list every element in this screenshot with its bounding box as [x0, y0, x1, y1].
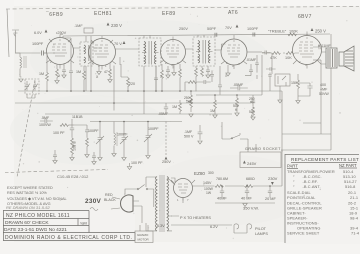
antenna series cap — [42, 51, 44, 56]
svg-text:¾M: ¾M — [80, 221, 87, 226]
cathode resistor 150 — [297, 74, 299, 101]
svg-text:11B1B: 11B1B — [72, 115, 83, 119]
svg-text:RES WATTAGE ½ 10%: RES WATTAGE ½ 10% — [7, 191, 47, 195]
AVC branch cap — [255, 55, 259, 79]
det cap .01MF — [245, 64, 253, 76]
svg-text:100PF: 100PF — [247, 27, 259, 31]
grid to treble connector — [271, 53, 273, 74]
det horizontal resistor — [188, 81, 196, 84]
V1 bias cluster — [19, 36, 86, 98]
rail cap 100PF — [253, 33, 255, 37]
svg-text:230 V: 230 V — [111, 23, 122, 28]
resistor 500K b — [252, 107, 254, 108]
IFT2 sec to V4 diode — [222, 44, 226, 50]
svg-text:150: 150 — [291, 81, 297, 85]
ferrite rod coil L1 — [20, 57, 22, 68]
treble pot box — [275, 74, 290, 86]
screen dropper — [119, 62, 121, 65]
svg-text:¯6FB9: ¯6FB9 — [45, 11, 63, 18]
label 250V right — [311, 28, 314, 31]
resistor 780ohm — [215, 185, 223, 188]
IFT1 bottom leads — [144, 66, 158, 91]
trimmer cap 2 — [33, 81, 38, 91]
V2 plate to IFT1 — [116, 48, 162, 49]
main bus y103 — [15, 102, 250, 104]
osc trimmer 2 — [117, 122, 128, 161]
svg-text:.05MF: .05MF — [158, 112, 169, 116]
AF line to grid chain — [253, 53, 262, 95]
resistor 500K a — [236, 95, 238, 113]
mains to transformer wires — [125, 189, 142, 223]
ground sym — [243, 204, 247, 207]
ground — [19, 79, 23, 82]
svg-text:21-1: 21-1 — [350, 195, 358, 200]
cathode ground — [55, 81, 59, 84]
IFT1 supply drop — [143, 91, 145, 114]
svg-text:EZ80: EZ80 — [194, 171, 205, 176]
svg-text:6.0V: 6.0V — [34, 31, 42, 35]
AC squiggle — [90, 208, 98, 211]
svg-text:516-8: 516-8 — [345, 184, 355, 189]
filter cap C20 — [268, 186, 272, 198]
cathode bypass cap — [62, 66, 66, 75]
svg-text:DATE 23-1-51 DWG No 4221: DATE 23-1-51 DWG No 4221 — [4, 227, 67, 233]
plate coupling wires — [44, 35, 326, 204]
svg-text:AT6: AT6 — [228, 10, 238, 16]
IFT feeds from rail — [91, 35, 204, 38]
svg-text:40MF: 40MF — [217, 197, 227, 201]
svg-text:PILOT: PILOT — [255, 227, 267, 231]
heater pilot wires — [227, 225, 247, 233]
tuning gang section box — [25, 79, 39, 94]
svg-text:6BV7: 6BV7 — [298, 14, 312, 20]
svg-text:VOLTAGES ◆ VT.V.M. NO SIGNAL: VOLTAGES ◆ VT.V.M. NO SIGNAL — [7, 197, 67, 201]
resistor 680ohm — [245, 185, 253, 188]
det cap b — [204, 80, 211, 84]
svg-text:POINTER-DIAL: POINTER-DIAL — [287, 195, 316, 200]
osc trimmer 1 — [88, 122, 104, 161]
tube pin numbers — [50, 60, 314, 202]
grid resistor 1M — [46, 53, 48, 91]
IFT2 secondary resistor b — [201, 66, 203, 68]
svg-text:″ -B.C.ANT.: ″ -B.C.ANT. — [293, 184, 321, 189]
page left border — [7, 9, 9, 57]
gramo socket box — [240, 147, 281, 168]
V5 grid wire from 10K — [294, 52, 299, 54]
svg-text:100 PF: 100 PF — [53, 131, 65, 135]
pilot lamp 1 — [234, 224, 239, 233]
drop cap with ground b — [92, 152, 96, 162]
tube V1 EF89 envelope — [46, 35, 74, 69]
svg-text:EXCEPT WHERE STATED: EXCEPT WHERE STATED — [7, 186, 53, 190]
svg-text:220: 220 — [129, 82, 135, 86]
svg-text:50PF: 50PF — [207, 27, 217, 31]
V4 detector cluster — [158, 58, 257, 120]
parts list table — [285, 152, 360, 244]
svg-text:1M: 1M — [210, 109, 215, 113]
IFT1 to V3 grid — [160, 51, 163, 53]
screen feed wire — [63, 36, 71, 63]
label 250V — [165, 157, 168, 160]
svg-text:100PF: 100PF — [88, 129, 99, 133]
resistor 47K — [272, 52, 280, 55]
100K resistor — [288, 33, 296, 36]
svg-text:BLACK: BLACK — [104, 198, 116, 202]
tube V3 EF89 envelope — [160, 37, 186, 69]
svg-text:RE DRAWN ON 31-5-52: RE DRAWN ON 31-5-52 — [6, 205, 50, 210]
grid resistor down — [270, 52, 272, 54]
tube V3 cathode gnd — [173, 65, 175, 73]
svg-text:P X TO HEATERS: P X TO HEATERS — [180, 216, 211, 220]
svg-text:EF89: EF89 — [162, 11, 176, 17]
page edge diagonal (fold) — [17, 80, 35, 177]
V4 plate AF out — [247, 51, 262, 53]
cathode ground — [98, 66, 100, 72]
mains switch — [139, 185, 154, 208]
junction dots — [46, 90, 271, 187]
osc coil — [112, 122, 117, 157]
resistor 1181B — [60, 124, 68, 127]
svg-text:DRAWN 60′ CHECK: DRAWN 60′ CHECK — [5, 220, 49, 226]
svg-text:.1MF: .1MF — [74, 24, 83, 28]
label 230V — [107, 23, 110, 26]
svg-text:100PF: 100PF — [32, 42, 44, 46]
second padder chain — [74, 125, 89, 138]
rail cap 50PF — [215, 33, 217, 37]
cap 250PF — [251, 95, 255, 107]
screen feed — [90, 36, 92, 92]
resistor 1M right — [179, 100, 181, 114]
notes block — [6, 174, 89, 210]
padder cap .5MF — [40, 119, 53, 123]
svg-text:300: 300 — [208, 171, 214, 175]
IF transformer T1 — [139, 36, 161, 91]
svg-text:REPLACEMENT PARTS LIST: REPLACEMENT PARTS LIST — [291, 157, 359, 162]
svg-text:RED: RED — [105, 193, 113, 197]
svg-text:0.01MF: 0.01MF — [318, 44, 332, 48]
svg-text:780.6M: 780.6M — [216, 177, 228, 181]
screen resistor — [161, 64, 163, 91]
svg-text:PART: PART — [287, 164, 298, 169]
svg-text:NZ PART: NZ PART — [339, 163, 357, 168]
B+ bus from rectifier — [193, 150, 283, 186]
svg-text:+MF: +MF — [320, 88, 328, 92]
oscillator section — [39, 115, 171, 165]
osc anode resistor 220 — [121, 64, 128, 91]
svg-text:C10-45 E28 /.012: C10-45 E28 /.012 — [57, 174, 89, 179]
svg-text:250V: 250V — [162, 160, 171, 164]
osc trimmer 3 — [144, 122, 159, 159]
audio output section — [262, 33, 354, 104]
EZ80 cathode stub — [182, 198, 184, 204]
svg-text:LAMPS: LAMPS — [255, 232, 268, 236]
main bus y91 — [18, 90, 282, 92]
AVC resistor 1M — [214, 95, 216, 114]
tone feed vertical — [269, 78, 271, 91]
svg-text:40 MF: 40 MF — [241, 197, 252, 201]
tone cap pair — [266, 67, 276, 78]
svg-text:250V: 250V — [179, 27, 188, 31]
svg-text:70V: 70V — [225, 26, 232, 30]
mains plug — [120, 195, 133, 212]
AF grid line — [262, 52, 299, 54]
cathode R — [166, 66, 170, 75]
radio/gramo switch — [222, 122, 248, 139]
trimmer cap 1 — [25, 81, 30, 91]
AGC resistor 1M — [83, 66, 85, 91]
screen feed — [307, 36, 321, 61]
padder resistor — [86, 138, 89, 146]
X marks — [160, 74, 228, 79]
IFT2 secondary resistor a — [195, 66, 197, 68]
svg-text:MOTOR: MOTOR — [138, 238, 150, 242]
IF transformer T2 — [193, 35, 215, 66]
gramo input cap .1MF 500V — [184, 122, 248, 144]
plate load — [179, 64, 181, 91]
HT winding to plates — [171, 178, 175, 185]
det branch — [210, 70, 214, 82]
resistor to gnd — [71, 138, 74, 146]
filter cap C40a — [220, 186, 224, 198]
svg-text:GRAMO SOCKET: GRAMO SOCKET — [245, 147, 281, 151]
V3 cluster — [144, 64, 181, 91]
svg-text:71-4: 71-4 — [351, 231, 360, 236]
title block — [3, 210, 135, 241]
speaker — [339, 46, 354, 71]
antenna coil box — [80, 36, 93, 91]
svg-text:SERVICE SHEET: SERVICE SHEET — [287, 231, 320, 236]
main bus y114 — [45, 113, 232, 115]
svg-text:1M: 1M — [172, 105, 177, 109]
volume pot 1M — [190, 91, 192, 112]
tube V5 6BV7 envelope — [293, 32, 322, 69]
svg-text:.1MF: .1MF — [184, 130, 193, 134]
svg-text:.05MF: .05MF — [233, 83, 244, 87]
AF line — [191, 91, 253, 95]
antenna — [12, 30, 55, 77]
svg-text:.01MF: .01MF — [246, 58, 257, 62]
V3 plate to IFT2 — [186, 49, 222, 50]
section separator dashed — [5, 170, 108, 173]
plate coupling .01MF — [313, 45, 326, 49]
gramo motor box — [135, 231, 153, 243]
svg-text:100 PF: 100 PF — [131, 161, 143, 165]
svg-text:10K: 10K — [285, 56, 292, 60]
svg-text:98-4: 98-4 — [350, 216, 359, 221]
grid resistor 47K — [109, 64, 111, 80]
svg-text:245V: 245V — [247, 161, 257, 166]
svg-text:100PF: 100PF — [148, 127, 159, 131]
svg-text:R-B07: R-B07 — [72, 142, 76, 151]
svg-text:680Ω: 680Ω — [246, 177, 255, 181]
gramo socket wires — [222, 139, 256, 152]
AF coupling cap to 47K — [262, 51, 271, 55]
top voltage labels — [34, 23, 332, 61]
svg-text:47: 47 — [104, 70, 108, 74]
svg-text:50VW: 50VW — [319, 92, 329, 96]
svg-text:100VW: 100VW — [39, 123, 51, 127]
svg-text:230V: 230V — [85, 198, 102, 205]
coupling cap C.1 — [84, 28, 93, 33]
cathode bypass 400MF — [307, 83, 312, 91]
output transformer T4 — [321, 34, 337, 68]
pilot lamp 2 — [247, 224, 252, 233]
svg-text:ECH81: ECH81 — [94, 11, 112, 17]
coupling cap .05MF — [230, 86, 248, 90]
diode load wire — [227, 65, 229, 73]
svg-text:500 V: 500 V — [184, 135, 194, 139]
svg-text:.5MF: .5MF — [41, 116, 50, 120]
det filter cap a — [206, 66, 210, 75]
IFT2 lead down — [218, 66, 222, 95]
ground bus under caps — [215, 202, 275, 204]
svg-text:1M: 1M — [39, 72, 44, 76]
svg-text:PF: PF — [250, 101, 254, 105]
filter cap C40b — [245, 186, 249, 198]
svg-text:“TREBLE”: “TREBLE” — [268, 29, 287, 34]
svg-text:6.2V: 6.2V — [210, 225, 218, 229]
cathode resistor — [56, 66, 58, 80]
svg-text:DOMINION RADIO & ELECTRICAL CO: DOMINION RADIO & ELECTRICAL CORP LTD. — [5, 235, 133, 241]
osc grid cap — [105, 66, 114, 111]
svg-text:20 MF: 20 MF — [265, 197, 276, 201]
svg-text:47K: 47K — [270, 56, 277, 60]
power section — [85, 150, 282, 243]
coupling cap .05MF left — [164, 103, 168, 113]
osc bus y122 — [90, 121, 182, 123]
svg-text:230V: 230V — [268, 176, 278, 181]
power transformer T3 — [146, 175, 173, 232]
drop cap with ground a — [53, 150, 57, 161]
switch ground — [127, 167, 131, 170]
svg-text:NZ PHILCO MODEL 1611: NZ PHILCO MODEL 1611 — [6, 213, 70, 219]
svg-text:1W: 1W — [206, 191, 212, 195]
V1 grid wire — [44, 35, 102, 54]
screen bypass — [69, 63, 73, 91]
rectifier tube V6 EZ80 — [171, 179, 195, 201]
svg-text:6.3V: 6.3V — [157, 224, 165, 228]
resistor 10K — [286, 52, 294, 55]
V2 cluster — [91, 36, 135, 111]
B+ distribution verticals — [281, 60, 331, 152]
svg-text:GRAMO: GRAMO — [137, 233, 149, 237]
tube V4 6AT6 envelope — [221, 35, 247, 69]
svg-text:1M: 1M — [76, 70, 81, 74]
svg-text:70 V: 70 V — [114, 42, 122, 46]
tube V2 ECH81 envelope — [88, 36, 116, 70]
svg-text:1M: 1M — [186, 100, 191, 104]
svg-text:250 V: 250 V — [315, 29, 326, 34]
V5 plate to .01MF — [307, 35, 326, 48]
svg-text:400: 400 — [320, 83, 326, 87]
svg-text:100PF: 100PF — [117, 133, 128, 137]
B+ top rail — [63, 34, 330, 36]
page top border — [6, 7, 359, 10]
